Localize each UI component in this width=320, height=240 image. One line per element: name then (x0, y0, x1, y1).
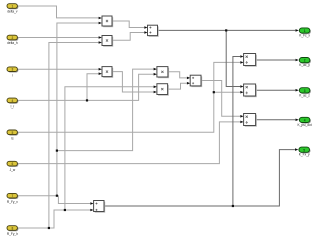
junction dot ls branch to R2 in2 (213, 91, 215, 93)
divide block R3 (244, 114, 257, 127)
wire R_Fy_h jog to S3 in2 (49, 210, 90, 228)
arrow Outport2 (296, 59, 299, 62)
arrow S1 in2 (144, 31, 147, 34)
svg-text:8: 8 (12, 227, 14, 231)
junction dot V1 on R_Fy_h (48, 227, 50, 229)
wire net R_Fy_v vertical V2 to P1 in2 (18, 23, 99, 196)
svg-text:R_Fy_h: R_Fy_h (7, 232, 18, 236)
outport 3 K_ac_z (299, 88, 311, 98)
inport 3 i (7, 67, 18, 78)
svg-text:1: 1 (12, 5, 14, 9)
inport 6 J_w (7, 161, 18, 172)
svg-text:ls: ls (11, 137, 14, 141)
svg-text:7: 7 (12, 194, 14, 198)
arrow P2 in2 (99, 41, 102, 44)
product block P4 (157, 84, 169, 96)
arrow Outport1 (296, 29, 299, 32)
svg-text:6: 6 (12, 162, 14, 166)
svg-text:K_ac_y: K_ac_y (299, 63, 310, 67)
arrow P1 in2 (99, 22, 102, 25)
wire ls to R1 in2 (18, 62, 240, 132)
svg-text:2: 2 (12, 36, 14, 40)
product block P3a (102, 67, 113, 78)
svg-text:delta_v: delta_v (7, 10, 18, 14)
wire P3 out to S2 in1 (168, 72, 187, 78)
product block P3 (157, 67, 169, 79)
svg-text:4: 4 (304, 119, 306, 123)
svg-text:3: 3 (12, 68, 14, 72)
wire J_w to R3 in2 (18, 122, 240, 164)
sum block S1 (148, 25, 159, 37)
wire R2 out to Outport3 (256, 89, 296, 91)
wire branch R_Fy_v to S3 in1 (57, 196, 90, 204)
wire P1 out to S1 in1 (112, 21, 144, 28)
wire delta_v to P1 in1 (18, 6, 99, 18)
inport 1 delta_v (7, 4, 18, 14)
wire branch R_Fy_v to P3 in1 riser (57, 69, 154, 151)
wire i to P3a in1 (18, 68, 99, 70)
wire P3a out to P4 in2 (112, 72, 154, 92)
outport 1 K_Fc_x (299, 28, 311, 38)
arrow Outport5 (295, 148, 298, 151)
arrow P4 in2 (154, 91, 157, 94)
wire branch S1 out to R2 in1 (226, 30, 240, 86)
arrow S1 in1 (144, 26, 147, 29)
arrow R2 in1 (240, 85, 243, 88)
svg-text:5: 5 (303, 148, 305, 152)
arrow S2 in2 (187, 82, 190, 85)
arrow P3 in2 (154, 73, 157, 76)
svg-text:3: 3 (304, 89, 306, 93)
sum block S2 (190, 75, 202, 87)
divide block R2 (244, 84, 257, 97)
arrow S3 in1 (90, 202, 93, 205)
svg-text:5: 5 (12, 131, 14, 135)
svg-text:1: 1 (304, 29, 306, 33)
svg-text:J_w: J_w (10, 168, 16, 172)
wire branch l_r riser to P3a in2 (87, 74, 99, 101)
wire R3 out to Outport4 (256, 119, 296, 121)
wire branch ls to R2 in2 (214, 91, 240, 93)
wire R1 out to Outport2 (256, 59, 296, 61)
product block P2 (102, 36, 113, 47)
outport 4 K_psi_dot (298, 117, 312, 127)
wire net R_Fy_h vertical V1 to P2 in2 (18, 43, 99, 229)
arrow Outport3 (296, 89, 299, 92)
junction dot V2 on R_Fy_v (56, 195, 58, 197)
svg-text:R_Fy_v: R_Fy_v (7, 200, 18, 204)
arrow R1 in1 (240, 55, 243, 58)
outport 2 K_ac_y (299, 58, 311, 68)
arrow P2 in1 (99, 36, 102, 39)
svg-text:delta_h: delta_h (7, 41, 18, 45)
arrow Outport4 (296, 119, 299, 122)
inport 8 R_Fy_h (7, 226, 19, 237)
outport 5 K_Fx_y (299, 147, 311, 157)
inport 5 ls (7, 130, 18, 141)
junction dot S3 out branch (232, 205, 234, 207)
svg-text:K_Fx_y: K_Fx_y (299, 153, 310, 157)
arrow S3 in2 (90, 209, 93, 212)
svg-text:2: 2 (304, 59, 306, 63)
wire l_r to P3 in2 (18, 74, 154, 100)
arrow P3 in1 (154, 68, 157, 71)
arrow S2 in1 (187, 77, 190, 80)
arrow R1 in2 (240, 61, 243, 64)
arrow R3 in2 (240, 121, 243, 124)
wire P4 out to S2 in2 (168, 83, 187, 89)
svg-text:K_psi_dot: K_psi_dot (298, 123, 312, 127)
svg-text:K_ac_z: K_ac_z (299, 93, 310, 97)
arrow R3 in1 (240, 115, 243, 118)
wire S3 out long run (104, 150, 295, 206)
product block P1 (102, 16, 113, 27)
wire S1 out to Outport1 K_Fc_x (158, 29, 296, 31)
junction dot S1 out branch (225, 29, 227, 31)
arrow P3a in1 (99, 68, 102, 71)
sum block S3 (94, 201, 106, 213)
inport 2 delta_h (7, 35, 18, 45)
inport 4 l_r (7, 98, 18, 109)
inport 7 R_Fy_v (7, 193, 18, 204)
junction dot riser P3a on l_r wire (86, 99, 88, 101)
wire P2 out to S1 in2 (112, 33, 144, 41)
divide block R1 (244, 54, 257, 67)
junction dot branch to P3 riser (56, 150, 58, 152)
arrow P1 in1 (99, 17, 102, 20)
arrow R2 in2 (240, 91, 243, 94)
arrow P3a in2 (99, 72, 102, 75)
wire branch S3 out to R1 in1 (233, 57, 240, 207)
arrow P4 in1 (154, 86, 157, 89)
svg-text:4: 4 (12, 99, 14, 103)
junction dot riser P4 on S3 in2 wire (64, 209, 66, 211)
wire branch R_Fy_h riser to P4 in1 (65, 87, 154, 210)
wire S2 out to R3 in1 (201, 81, 240, 117)
svg-text:K_Fc_x: K_Fc_x (299, 34, 310, 38)
wire delta_h to P2 in1 (18, 37, 99, 39)
